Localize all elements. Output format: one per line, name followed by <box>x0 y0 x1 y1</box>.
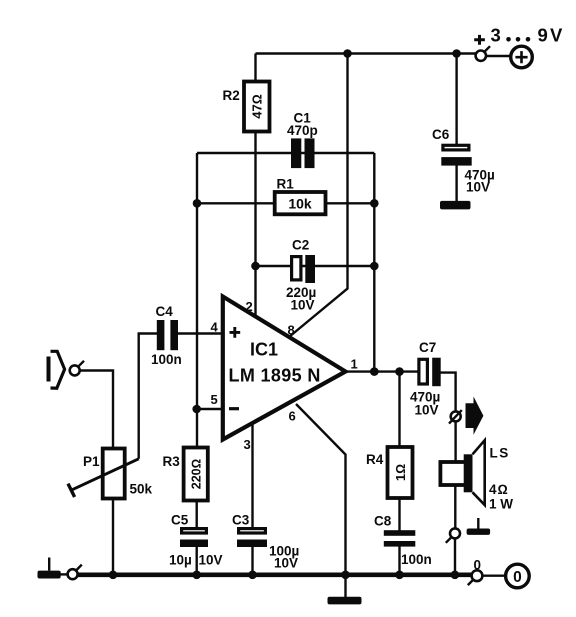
capacitor C7 <box>419 358 441 387</box>
svg-text:470p: 470p <box>287 123 318 138</box>
svg-text:4Ω: 4Ω <box>489 482 509 497</box>
capacitor C4 <box>157 320 178 350</box>
input connector symbol <box>49 351 65 388</box>
pin number 3 <box>244 437 251 452</box>
svg-text:0: 0 <box>474 558 482 573</box>
wire R1 horizontal branch <box>197 202 374 204</box>
junction on supply rail at pin8 branch <box>343 49 352 58</box>
wire pin 6 branch to ground bus <box>296 404 346 575</box>
wire pin 8 branch to supply rail <box>289 54 348 338</box>
svg-text:10V: 10V <box>199 553 223 568</box>
svg-text:IC1: IC1 <box>250 340 278 360</box>
wire C5 bottom to ground bus <box>195 547 197 575</box>
label C4 <box>156 304 174 319</box>
pin number 5 <box>211 392 218 407</box>
wire C1 horizontal branch <box>197 152 374 154</box>
svg-text:10V: 10V <box>291 298 315 313</box>
label 220u <box>286 285 316 300</box>
label C2 10V <box>291 298 315 313</box>
svg-text:R1: R1 <box>277 177 295 192</box>
label C8 <box>374 514 392 529</box>
svg-text:6: 6 <box>289 409 296 424</box>
svg-text:2: 2 <box>246 299 253 314</box>
svg-text:47Ω: 47Ω <box>249 94 264 118</box>
ground bottom left <box>38 558 61 579</box>
label P1 <box>83 454 100 469</box>
label 1 W <box>489 497 513 512</box>
pin number 6 <box>289 409 296 424</box>
svg-text:8: 8 <box>288 323 295 338</box>
pin number 1 <box>351 357 358 372</box>
bottom left terminal circle <box>68 565 82 580</box>
op-amp IC1 triangle <box>223 297 346 440</box>
label C1 <box>294 111 312 126</box>
svg-text:10µ: 10µ <box>169 553 192 568</box>
svg-text:C3: C3 <box>232 513 250 528</box>
wire pin 3 to C3 <box>251 423 253 528</box>
label 470p <box>287 123 318 138</box>
label R3 <box>163 454 181 469</box>
junction output at right rail <box>370 367 379 376</box>
svg-text:4: 4 <box>211 320 219 335</box>
wire center ground stub <box>344 575 346 598</box>
battery 0 terminal <box>506 564 530 588</box>
wire R4 bottom to C8 <box>398 498 400 531</box>
svg-text:P1: P1 <box>83 454 100 469</box>
svg-text:100n: 100n <box>151 352 182 367</box>
wire C6 top stub <box>455 54 457 145</box>
junction C2 wire left <box>251 262 260 271</box>
wire speaker terminal to LS box <box>454 421 456 462</box>
svg-text:V: V <box>550 25 563 46</box>
wire LS box to lower terminal <box>454 485 456 529</box>
label C4 100n <box>151 352 182 367</box>
junction on supply rail at C6 <box>452 49 461 58</box>
label C5 10V <box>199 553 223 568</box>
op-amp minus input marker <box>229 407 239 410</box>
wire pin 5 branch <box>197 408 223 410</box>
svg-text:10V: 10V <box>274 556 298 571</box>
label C6 10V <box>466 180 490 195</box>
supply plus marker <box>474 35 485 45</box>
junction pin 5 node <box>192 405 201 414</box>
supply terminal circle <box>476 46 490 61</box>
label C8 100n <box>401 552 432 567</box>
loudspeaker LS <box>440 440 484 505</box>
svg-text:5: 5 <box>211 392 218 407</box>
svg-text:3: 3 <box>244 437 251 452</box>
wire bottom-left ground link <box>61 573 68 575</box>
input terminal circle <box>70 361 84 376</box>
svg-text:R2: R2 <box>223 88 240 103</box>
op-amp plus input marker <box>230 327 241 338</box>
svg-text:LS: LS <box>490 446 510 461</box>
wire output to R4 top <box>398 372 400 447</box>
label C7 10V <box>415 403 439 418</box>
output signal arrow <box>466 397 484 435</box>
speaker upper terminal circle <box>449 410 462 424</box>
label 3...9V <box>491 25 564 46</box>
wire C8 bottom to ground bus <box>398 546 400 575</box>
wire C3 bottom to ground bus <box>251 547 253 575</box>
label C6 <box>432 127 450 142</box>
label C5 <box>171 513 189 528</box>
junction R1 wire left <box>193 199 202 208</box>
wire R2 top stub <box>254 54 256 82</box>
svg-text:C6: C6 <box>432 127 450 142</box>
resistor R4 <box>388 447 413 498</box>
label C5 10u <box>169 553 192 568</box>
capacitor C6 <box>441 145 471 165</box>
svg-text:10k: 10k <box>288 196 312 212</box>
svg-text:100n: 100n <box>401 552 432 567</box>
junction ground bus at C3 <box>248 571 257 580</box>
wire lower terminal to ground bus <box>454 538 456 575</box>
label 50k <box>130 482 153 497</box>
wire top supply rail <box>256 52 476 54</box>
wire C2 horizontal branch <box>256 265 375 267</box>
svg-text:1Ω: 1Ω <box>393 464 408 481</box>
svg-text:LM 1895 N: LM 1895 N <box>229 366 321 386</box>
op-amp label IC1 <box>250 340 278 360</box>
label C2 <box>292 238 309 253</box>
capacitor C8 <box>384 530 416 546</box>
svg-text:C8: C8 <box>374 514 392 529</box>
wire left feedback rail (C1 to R3) <box>196 153 198 448</box>
op-amp label LM 1895 N <box>229 366 321 386</box>
ground under C6 <box>440 201 471 210</box>
wire R2 bottom rail down to pin 2 <box>254 132 256 318</box>
junction ground bus at C5 <box>192 571 201 580</box>
svg-text:C4: C4 <box>156 304 174 319</box>
speaker lower terminal circle <box>446 528 460 542</box>
junction C2 wire right <box>370 262 379 271</box>
potentiometer P1 <box>68 449 139 499</box>
svg-text:1: 1 <box>351 357 358 372</box>
wire supply terminal to battery plus <box>486 55 510 57</box>
label LS <box>490 446 510 461</box>
junction ground bus at P1 <box>109 571 118 580</box>
svg-text:R3: R3 <box>163 454 181 469</box>
label 4 ohm <box>489 482 509 497</box>
junction R1 wire right <box>370 199 379 208</box>
pin number 4 <box>211 320 219 335</box>
label R1 <box>277 177 295 192</box>
battery plus terminal <box>511 46 533 68</box>
pin number 2 <box>246 299 253 314</box>
svg-text:10V: 10V <box>415 403 439 418</box>
wire R3 bottom to C5 <box>195 501 197 528</box>
ground bottom center <box>328 597 362 605</box>
wire C6 bottom stub to ground <box>455 165 457 202</box>
wire P1 bottom to ground bus <box>112 499 114 575</box>
resistor R1 <box>275 192 326 214</box>
junction ground bus at pin6 <box>341 571 350 580</box>
junction ground bus at speaker branch <box>451 571 460 580</box>
junction ground bus at C8 <box>395 571 404 580</box>
svg-text:9: 9 <box>538 25 548 46</box>
svg-text:1 W: 1 W <box>489 497 513 512</box>
svg-text:3: 3 <box>491 25 501 46</box>
svg-text:50k: 50k <box>130 482 153 497</box>
label C3 <box>232 513 250 528</box>
capacitor C3 <box>237 529 267 547</box>
wire input to P1 top <box>80 371 113 449</box>
label C3 10V <box>274 556 298 571</box>
label C7 <box>419 340 436 355</box>
resistor R2 <box>244 82 270 132</box>
wire right feedback rail (C1 corner to output) <box>373 153 375 372</box>
junction output at R4 branch <box>395 367 404 376</box>
ground near speaker lower terminal <box>467 518 491 535</box>
label R4 <box>366 452 384 467</box>
svg-text:C7: C7 <box>419 340 436 355</box>
resistor R3 <box>184 448 208 501</box>
svg-text:C2: C2 <box>292 238 309 253</box>
capacitor C1 <box>291 138 315 168</box>
wire C7 right to speaker branch upper <box>441 373 456 412</box>
pin number 8 <box>288 323 295 338</box>
label C6 470u <box>465 168 495 183</box>
label 0 node <box>474 558 482 573</box>
wire ground bus (bottom rail) <box>77 572 471 577</box>
capacitor C5 <box>180 529 208 547</box>
zero terminal circle <box>468 570 483 585</box>
capacitor C2 <box>292 255 315 283</box>
svg-text:C5: C5 <box>171 513 189 528</box>
svg-text:220Ω: 220Ω <box>189 459 203 489</box>
wire zero terminal to 0 battery <box>482 575 505 577</box>
wire op-amp output <box>346 370 419 372</box>
label C7 470u <box>410 390 440 405</box>
wire P1 wiper to C4 <box>139 334 158 459</box>
label R2 <box>223 88 240 103</box>
svg-text:10V: 10V <box>466 180 490 195</box>
svg-text:0: 0 <box>513 569 522 586</box>
svg-text:R4: R4 <box>366 452 384 467</box>
label C3 100u <box>269 544 299 559</box>
wire C4 to pin 4 <box>178 332 223 334</box>
